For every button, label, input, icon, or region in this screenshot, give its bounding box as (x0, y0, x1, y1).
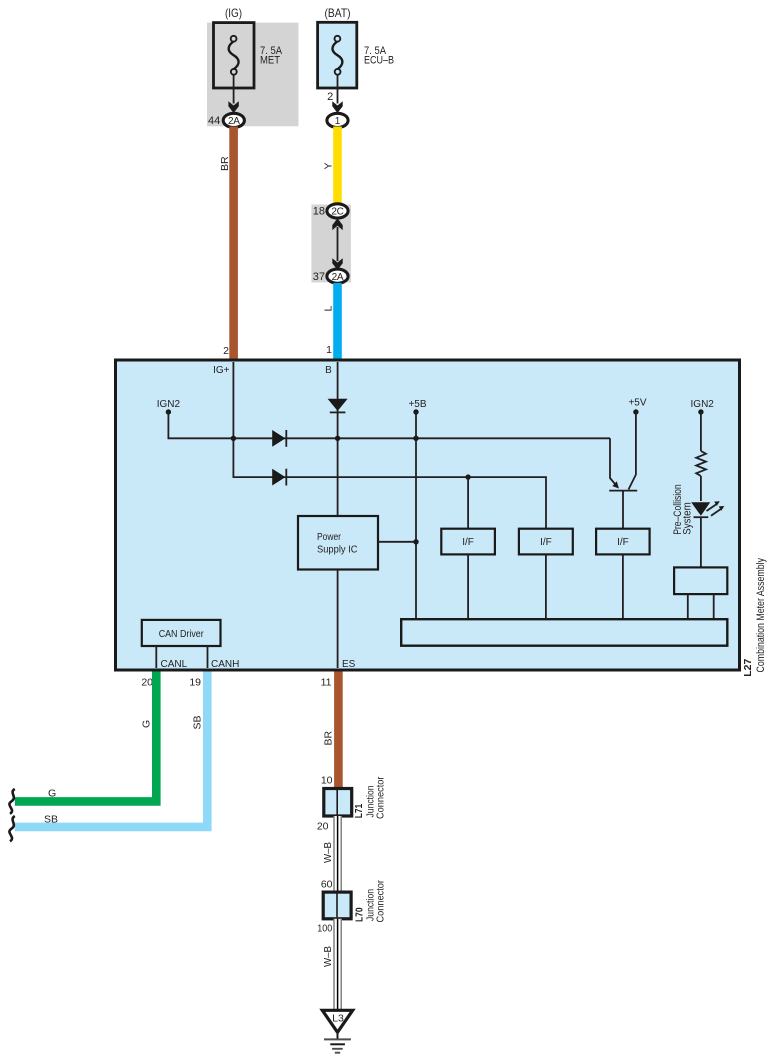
connector oval 2C pin 18 (327, 204, 348, 218)
fuse (BAT) 7.5A ECU-B (318, 6, 394, 88)
svg-text:L71: L71 (354, 803, 365, 818)
wire W-B from L70 to ground (333, 919, 342, 1010)
svg-text:1: 1 (335, 116, 341, 127)
svg-text:2A: 2A (228, 116, 240, 127)
svg-text:CANL: CANL (161, 659, 188, 670)
svg-text:Supply IC: Supply IC (317, 545, 358, 556)
svg-text:ES: ES (342, 659, 356, 670)
svg-text:Y: Y (323, 162, 335, 169)
svg-text:IGN2: IGN2 (157, 399, 181, 410)
svg-text:I/F: I/F (540, 537, 552, 548)
wire SB CANH (15, 672, 207, 827)
svg-text:10: 10 (321, 775, 333, 787)
svg-text:G: G (141, 720, 153, 728)
wire resistor to LED (700, 476, 702, 501)
svg-text:G: G (48, 788, 56, 800)
junction dot row2 to I/F1 (465, 474, 470, 479)
I/F box 1 (441, 529, 495, 555)
internal bus bar box (401, 619, 727, 646)
node +5B (408, 399, 426, 619)
svg-text:20: 20 (141, 677, 153, 689)
fuse block IG gray panel (207, 23, 299, 127)
svg-text:37: 37 (313, 271, 325, 283)
node +5V (628, 397, 646, 414)
wire L blue from 2A to meter pin 1 (333, 283, 342, 360)
I/F box 2 (519, 529, 573, 555)
wire B vertical (337, 362, 339, 516)
svg-text:BR: BR (323, 730, 335, 745)
wire BR brown ES to L71 (334, 672, 343, 790)
wire PSIC to ES (337, 570, 339, 669)
svg-text:(IG): (IG) (225, 6, 242, 20)
combination meter assembly box L27 (116, 360, 740, 670)
junction on B line (335, 436, 340, 441)
diode D2 on IGN2 row (272, 430, 286, 447)
junction on IG+ line (231, 436, 236, 441)
pin arrow into connector 1 (332, 101, 342, 113)
junction connector L70 (323, 892, 351, 919)
svg-text:I/F: I/F (462, 537, 474, 548)
svg-text:60: 60 (321, 879, 333, 891)
transistor Q1 (609, 412, 637, 529)
svg-text:20: 20 (317, 821, 329, 833)
wire Y yellow from connector 1 down (333, 127, 342, 206)
LED D4 pre-collision (691, 501, 724, 517)
wire from fuse IG to pin arrow (233, 75, 235, 104)
svg-text:IG+: IG+ (213, 365, 230, 376)
pin arrow into connector 2A (228, 101, 238, 113)
svg-text:2C: 2C (331, 207, 343, 218)
I/F box 3 (596, 529, 650, 555)
svg-text:L27: L27 (742, 659, 754, 677)
wire from fuse BAT to pin arrow, pin 2 (337, 75, 339, 104)
svg-text:L: L (323, 306, 335, 312)
connector block 2C/2A gray panel (311, 205, 351, 283)
svg-text:19: 19 (189, 677, 201, 689)
svg-text:I/F: I/F (617, 537, 629, 548)
svg-text:B: B (325, 365, 332, 376)
svg-text:(BAT): (BAT) (325, 6, 351, 20)
connector oval 2A pin 44 (223, 113, 244, 127)
svg-text:SB: SB (192, 715, 204, 729)
break squiggle on G (9, 789, 14, 814)
svg-text:MET: MET (260, 55, 280, 67)
break squiggle on SB (9, 816, 14, 841)
svg-text:W–B: W–B (322, 946, 334, 967)
svg-text:100: 100 (317, 923, 332, 935)
junction connector L71 (324, 789, 352, 817)
svg-text:44: 44 (208, 115, 220, 127)
junction on +5B line (413, 436, 418, 441)
resistor R in pre-collision branch (696, 451, 706, 476)
svg-text:2A: 2A (332, 272, 344, 283)
svg-text:18: 18 (313, 206, 325, 218)
svg-text:CANH: CANH (211, 659, 239, 670)
svg-text:1: 1 (326, 344, 332, 356)
svg-text:W–B: W–B (322, 842, 334, 863)
connector oval 1 (327, 113, 348, 127)
diode D3 on row2 (272, 469, 286, 486)
wire G green CANL (15, 672, 156, 802)
svg-text:ECU–B: ECU–B (364, 55, 394, 67)
svg-text:CAN Driver: CAN Driver (159, 629, 205, 640)
svg-text:Connector: Connector (374, 880, 386, 923)
ground point L3 triangle (322, 1010, 352, 1032)
legs from meter unit to bus (687, 594, 689, 619)
node IGN2 left (157, 399, 610, 439)
legs I/F boxes to bus (467, 554, 469, 619)
pre-collision meter unit box (674, 567, 727, 594)
svg-text:2: 2 (223, 345, 229, 357)
svg-text:+5V: +5V (628, 397, 646, 408)
diode D1 on B line (328, 399, 348, 413)
svg-text:SB: SB (44, 814, 58, 826)
wire BR brown from 2A to meter pin 2 (229, 127, 238, 361)
node IGN2 right (691, 399, 715, 451)
wire CANH leg (207, 646, 209, 668)
svg-text:Connector: Connector (375, 776, 387, 819)
svg-text:BR: BR (219, 156, 231, 171)
svg-text:+5B: +5B (408, 399, 426, 410)
svg-text:Combination Meter Assembly: Combination Meter Assembly (755, 558, 767, 673)
svg-text:L3: L3 (332, 1013, 344, 1025)
svg-text:IGN2: IGN2 (691, 399, 715, 410)
wire IG+ vertical (233, 362, 546, 529)
svg-text:Power: Power (317, 532, 342, 543)
wire CANL leg (155, 646, 157, 668)
wire W-B from L71 to L70 (333, 816, 342, 892)
power supply IC U1 (298, 516, 378, 570)
svg-text:System: System (681, 502, 693, 535)
wire LED to meter unit box (700, 517, 702, 567)
fuse (IG) 7.5A MET (214, 6, 283, 88)
CAN driver box (142, 620, 221, 646)
svg-text:2: 2 (327, 91, 333, 103)
double-ended arrow between 2C and 2A (337, 227, 339, 261)
wire PSIC output to +5B line (378, 541, 416, 543)
connector oval 2A pin 37 (327, 269, 348, 283)
ground symbol (324, 1034, 351, 1053)
svg-text:11: 11 (321, 677, 332, 689)
